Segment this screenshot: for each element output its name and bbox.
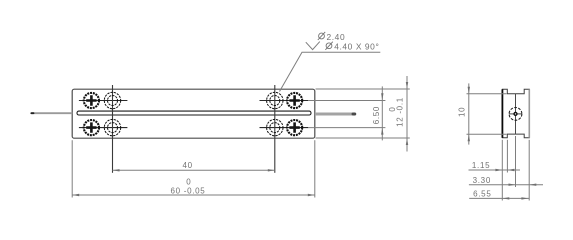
svg-text:2.40: 2.40 bbox=[327, 32, 346, 42]
svg-text:6.50: 6.50 bbox=[372, 106, 381, 124]
extension line 6.50 bottom bbox=[308, 127, 385, 129]
extension line 60 left bbox=[71, 140, 73, 197]
centerline row bottom-right bbox=[260, 127, 309, 129]
dimension 1.15 bbox=[469, 161, 521, 171]
screw S3 (top right) bbox=[287, 93, 302, 108]
centerline row top-right bbox=[260, 100, 309, 102]
svg-text:1.15: 1.15 bbox=[472, 161, 490, 170]
side hole centerline horizontal bbox=[509, 113, 522, 115]
side view outline bbox=[502, 89, 529, 138]
side hole centerline vertical bbox=[515, 94, 517, 134]
svg-text:10: 10 bbox=[457, 107, 466, 117]
side hole circle bbox=[509, 108, 522, 121]
svg-text:4.40 X 90°: 4.40 X 90° bbox=[334, 42, 379, 52]
screw S4 (bottom right) bbox=[287, 120, 302, 135]
hole H3 (top right) bbox=[267, 92, 283, 108]
svg-text:6.55: 6.55 bbox=[473, 190, 491, 199]
output fiber (right) bbox=[315, 113, 355, 116]
extension line 60 right bbox=[314, 140, 316, 197]
extension line side tab inner bbox=[506, 140, 508, 173]
svg-text:40: 40 bbox=[183, 161, 193, 170]
extension line side right edge bbox=[528, 140, 530, 201]
svg-text:60 -0.05: 60 -0.05 bbox=[171, 187, 206, 196]
body outline (front view) bbox=[72, 89, 315, 138]
extension line 10 top bbox=[467, 93, 507, 95]
callout text diameter 4.40 X 90 bbox=[325, 42, 379, 52]
extension line side hole center bbox=[515, 136, 517, 187]
dimension 6.55 bbox=[469, 190, 529, 200]
hole H4 (bottom right) bbox=[267, 119, 283, 135]
hole H1 (top left, countersunk) bbox=[104, 92, 120, 108]
dimension 6.50 bbox=[372, 86, 384, 140]
slot (front view groove) bbox=[77, 111, 311, 115]
extension line 6.50 top bbox=[308, 100, 385, 102]
hole centerline vertical left bbox=[112, 85, 114, 173]
extension line 12 top bbox=[316, 88, 410, 90]
svg-text:0: 0 bbox=[186, 177, 191, 186]
dimension 10 bbox=[457, 83, 470, 144]
screw S2 (bottom left) bbox=[84, 120, 99, 135]
hole centerline vertical right bbox=[274, 85, 276, 173]
dimension 40 bbox=[113, 161, 275, 172]
input fiber (left) bbox=[31, 112, 72, 114]
countersink callout leader bbox=[280, 52, 381, 91]
callout text diameter 2.40 bbox=[318, 32, 345, 42]
centerline row top-left bbox=[79, 100, 128, 102]
extension line side left edge bbox=[501, 140, 503, 201]
dimension 3.30 bbox=[469, 176, 543, 186]
hole H2 (bottom left) bbox=[104, 119, 120, 135]
screw S1 (top left) bbox=[84, 93, 99, 108]
dimension 12 -0.1 bbox=[388, 76, 408, 152]
dimension 60 -0.05 bbox=[72, 177, 315, 196]
extension line 10 bottom bbox=[467, 133, 507, 135]
countersink symbol bbox=[306, 42, 320, 50]
svg-text:3.30: 3.30 bbox=[473, 176, 491, 185]
extension line 12 bottom bbox=[316, 137, 410, 139]
centerline row bottom-left bbox=[79, 127, 128, 129]
svg-text:12 -0.1: 12 -0.1 bbox=[396, 97, 405, 127]
